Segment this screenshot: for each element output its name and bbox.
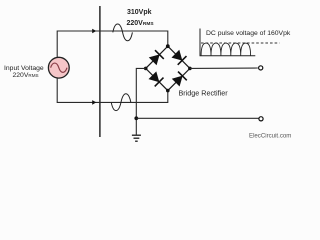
sine inside source <box>51 63 67 72</box>
wire top: source top to bridge top vertex <box>57 31 168 57</box>
svg-text:220VRMS: 220VRMS <box>127 20 155 27</box>
node line (long vertical bus) <box>99 6 101 137</box>
sine symbol on top wire <box>113 24 133 41</box>
svg-text:DC pulse voltage of 160Vpk: DC pulse voltage of 160Vpk <box>206 30 291 37</box>
diode D2 (top-right edge) <box>171 49 187 65</box>
waveform humps (DC pulses) <box>201 43 251 56</box>
terminal DC- <box>259 117 263 121</box>
peak dashed line <box>201 42 280 44</box>
node dot bottom vertex <box>166 89 170 93</box>
wire: DC+ output from right vertex <box>190 67 258 69</box>
terminal DC+ <box>259 66 263 70</box>
wire: DC- output <box>136 117 258 119</box>
arrow bottom wire <box>92 100 96 105</box>
sine symbol on bottom wire <box>111 94 131 111</box>
waveform axis <box>200 29 255 56</box>
svg-text:220VRMS: 220VRMS <box>13 72 39 79</box>
svg-text:ElecCircuit.com: ElecCircuit.com <box>249 132 291 139</box>
wire bottom: source bottom to bridge bottom vertex <box>57 78 168 102</box>
node dot right vertex <box>188 67 192 71</box>
diode D1 (left-top edge) <box>148 50 164 66</box>
ground <box>132 135 141 141</box>
node dot left vertex <box>144 67 148 71</box>
svg-text:Input Voltage: Input Voltage <box>4 65 44 72</box>
node dot DC- junction <box>134 116 138 120</box>
diode D4 (bottom-right edge) <box>171 71 187 87</box>
wire: left vertex to ground rail <box>136 68 145 134</box>
bridge rectifier diamond wires <box>146 46 190 90</box>
diode D3 (left-bottom edge) <box>148 71 164 87</box>
svg-text:310Vpk: 310Vpk <box>127 9 152 16</box>
AC source V1 <box>48 57 69 78</box>
svg-text:Bridge Rectifier: Bridge Rectifier <box>179 88 229 97</box>
arrow top wire <box>92 29 96 34</box>
node dot top vertex <box>166 44 170 48</box>
